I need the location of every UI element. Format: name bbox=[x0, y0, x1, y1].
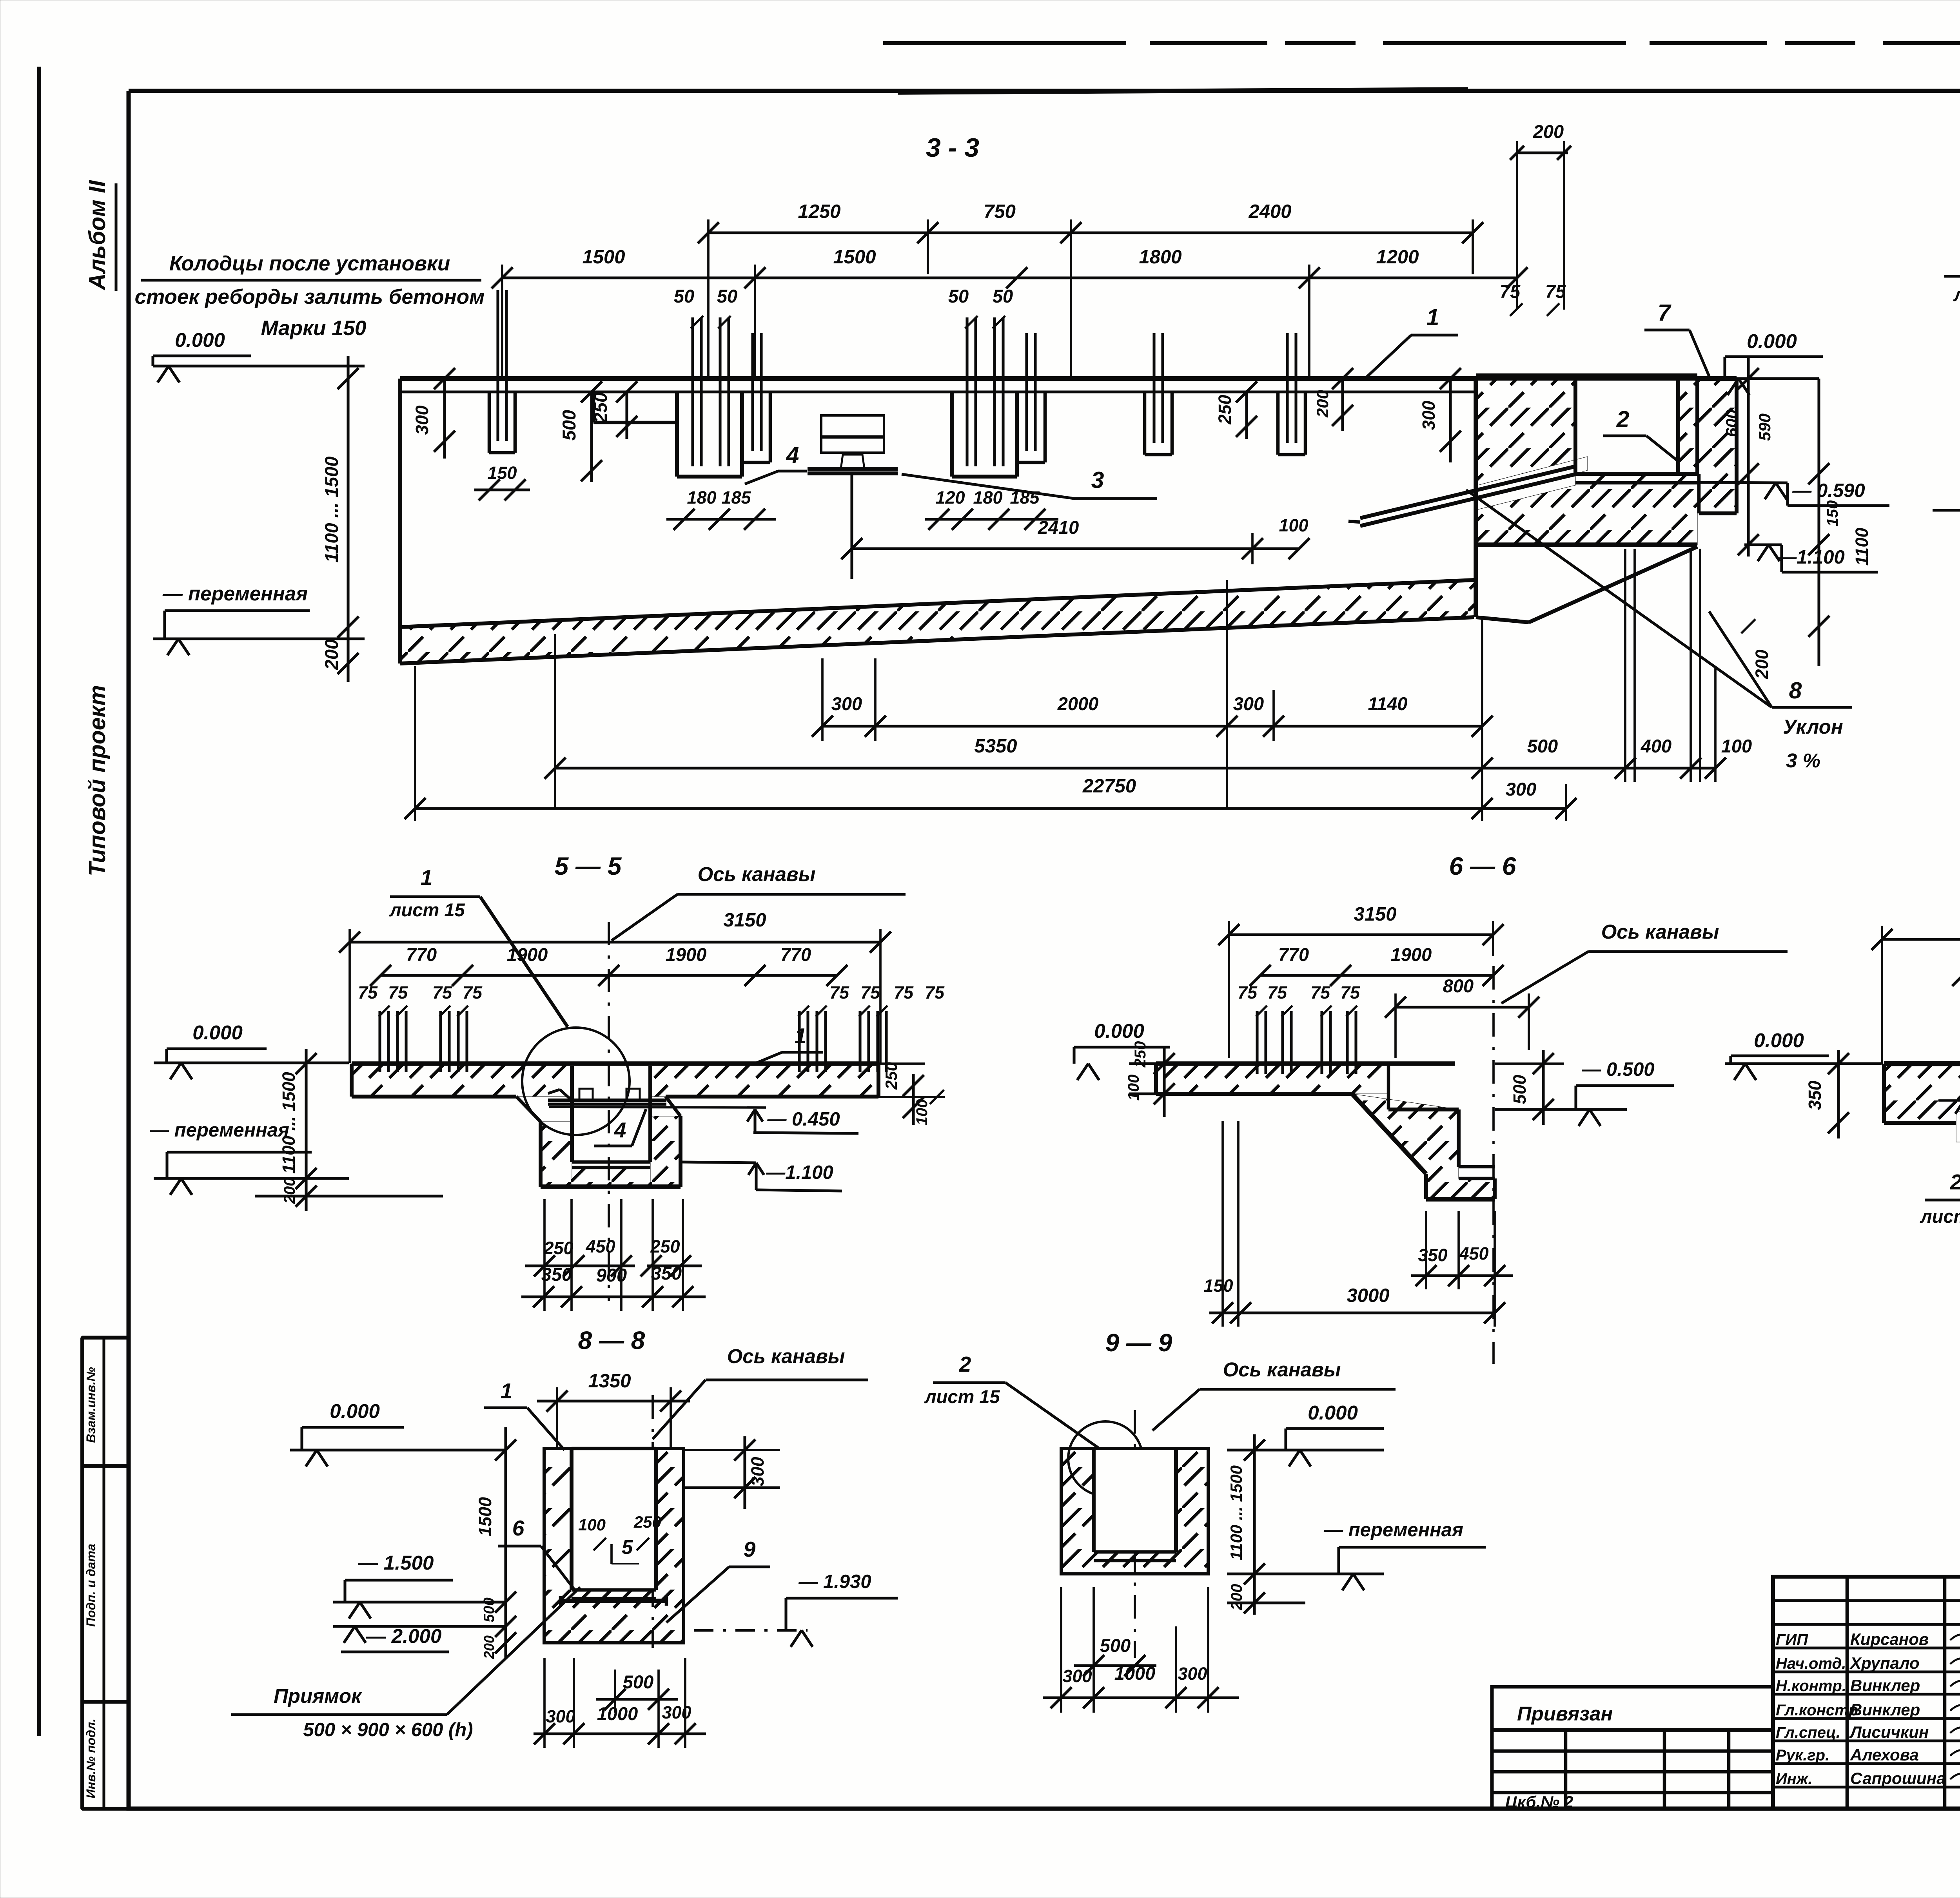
bottom dims 9-9 bbox=[1074, 1664, 1156, 1667]
svg-text:100: 100 bbox=[578, 1515, 606, 1534]
bottom dims 5-5 row1 bbox=[525, 1264, 635, 1267]
svg-text:6: 6 bbox=[512, 1516, 524, 1540]
pocket right small bbox=[742, 390, 770, 393]
detail circle 5-5 bbox=[522, 1028, 630, 1135]
main title block bbox=[1773, 1577, 1960, 1809]
svg-text:Взам.инв.№: Взам.инв.№ bbox=[84, 1367, 98, 1443]
svg-text:1: 1 bbox=[501, 1379, 513, 1403]
dim 800 6-6 bbox=[1396, 1006, 1529, 1008]
dim 3150 6-6 bbox=[1229, 933, 1493, 936]
svg-text:1100 ... 1500: 1100 ... 1500 bbox=[321, 457, 342, 563]
bottom dims 8-8 bbox=[596, 1698, 678, 1700]
svg-text:2000: 2000 bbox=[1057, 693, 1099, 714]
svg-text:200: 200 bbox=[1533, 121, 1564, 142]
svg-text:350: 350 bbox=[1805, 1080, 1825, 1110]
svg-text:75: 75 bbox=[358, 983, 378, 1002]
dim 200 250 chain right part bbox=[1341, 379, 1344, 431]
svg-text:500 × 900 × 600 (h): 500 × 900 × 600 (h) bbox=[303, 1719, 473, 1740]
svg-text:300: 300 bbox=[1506, 779, 1536, 799]
svg-text:4: 4 bbox=[614, 1118, 626, 1142]
svg-text:200: 200 bbox=[1313, 390, 1332, 418]
svg-text:3000: 3000 bbox=[1347, 1285, 1389, 1306]
sloped hatched band 3-3 bbox=[400, 580, 1474, 663]
svg-text:Лисичкин: Лисичкин bbox=[1849, 1723, 1929, 1741]
svg-text:200: 200 bbox=[281, 1178, 298, 1204]
dim row 770 1900 6-6 bbox=[1260, 974, 1493, 977]
dim 250 chain bbox=[625, 392, 628, 439]
drain channel through wall white bbox=[1478, 457, 1588, 509]
bottom dims 3-3 row2 5350 bbox=[555, 767, 1482, 769]
svg-text:120: 120 bbox=[935, 488, 965, 508]
svg-text:250: 250 bbox=[650, 1236, 680, 1256]
svg-text:— переменная: — переменная bbox=[149, 1120, 289, 1141]
svg-text:100: 100 bbox=[913, 1099, 931, 1126]
svg-text:ГИП: ГИП bbox=[1776, 1631, 1808, 1648]
left chain 8-8 bbox=[504, 1427, 507, 1658]
svg-text:100: 100 bbox=[1125, 1075, 1142, 1101]
svg-text:лист 15: лист 15 bbox=[1953, 284, 1960, 305]
svg-text:1: 1 bbox=[1426, 305, 1439, 330]
big pocket 180-185 first bbox=[675, 392, 679, 477]
svg-text:8 — 8: 8 — 8 bbox=[578, 1326, 645, 1354]
svg-text:1200: 1200 bbox=[1376, 247, 1419, 268]
svg-text:Ось канавы: Ось канавы bbox=[1223, 1358, 1341, 1381]
svg-text:2400: 2400 bbox=[1248, 201, 1291, 222]
mass under 6-6 bbox=[1352, 1094, 1495, 1199]
privyazan table bbox=[1492, 1687, 1773, 1809]
left stamp column boxes bbox=[82, 1338, 129, 1809]
svg-text:1500: 1500 bbox=[475, 1497, 495, 1536]
bottom line 9-9 bbox=[1227, 1601, 1305, 1604]
svg-text:75: 75 bbox=[860, 983, 880, 1002]
svg-text:770: 770 bbox=[406, 944, 437, 965]
svg-text:50: 50 bbox=[674, 286, 694, 306]
svg-text:800: 800 bbox=[1443, 975, 1474, 996]
svg-text:300: 300 bbox=[1178, 1664, 1207, 1684]
slab 5-5 outline bbox=[352, 1061, 878, 1066]
svg-text:185: 185 bbox=[721, 488, 751, 508]
svg-text:150: 150 bbox=[487, 463, 517, 483]
svg-text:5 — 5: 5 — 5 bbox=[555, 852, 622, 880]
svg-text:75: 75 bbox=[894, 983, 914, 1002]
svg-text:9 — 9: 9 — 9 bbox=[1105, 1329, 1172, 1357]
svg-text:0.000: 0.000 bbox=[192, 1021, 243, 1044]
svg-text:250: 250 bbox=[543, 1238, 573, 1258]
svg-text:1800: 1800 bbox=[1139, 247, 1181, 268]
svg-text:250: 250 bbox=[633, 1513, 661, 1531]
svg-text:1500: 1500 bbox=[582, 247, 625, 268]
svg-text:75: 75 bbox=[1267, 983, 1287, 1002]
svg-text:1100 ... 1500: 1100 ... 1500 bbox=[279, 1072, 299, 1173]
svg-text:1250: 1250 bbox=[798, 201, 840, 222]
svg-text:0.000: 0.000 bbox=[175, 329, 225, 351]
svg-text:2: 2 bbox=[1616, 406, 1630, 432]
grate detail in pit 5-5 bbox=[548, 1099, 666, 1102]
svg-text:0.000: 0.000 bbox=[330, 1400, 380, 1422]
svg-text:50: 50 bbox=[717, 286, 737, 306]
svg-text:450: 450 bbox=[1459, 1244, 1488, 1264]
svg-text:300: 300 bbox=[412, 405, 432, 435]
svg-text:300: 300 bbox=[1062, 1666, 1092, 1686]
svg-text:500: 500 bbox=[559, 410, 579, 441]
svg-text:75: 75 bbox=[1310, 983, 1330, 1002]
svg-text:Гл.констр: Гл.констр bbox=[1776, 1702, 1858, 1719]
svg-text:Рук.гр.: Рук.гр. bbox=[1776, 1747, 1829, 1764]
svg-text:Альбом II: Альбом II bbox=[84, 180, 110, 291]
bottom dims 5-5 row2 bbox=[521, 1295, 706, 1298]
svg-text:Подп. и дата: Подп. и дата bbox=[84, 1544, 98, 1627]
svg-text:200: 200 bbox=[321, 639, 342, 670]
svg-text:Нач.отд.: Нач.отд. bbox=[1776, 1655, 1846, 1672]
svg-text:Винклер: Винклер bbox=[1850, 1676, 1920, 1695]
svg-text:3150: 3150 bbox=[723, 910, 766, 931]
svg-text:0.000: 0.000 bbox=[1754, 1029, 1804, 1051]
svg-text:150: 150 bbox=[1824, 500, 1841, 527]
dim 1350 8-8 bbox=[537, 1399, 690, 1402]
outer left trim line bbox=[37, 67, 41, 1736]
left chain 5-5 bbox=[305, 1049, 307, 1211]
svg-text:300: 300 bbox=[1419, 401, 1439, 430]
svg-text:250: 250 bbox=[882, 1062, 900, 1090]
svg-text:1100: 1100 bbox=[1852, 528, 1872, 566]
svg-text:400: 400 bbox=[1641, 736, 1671, 756]
svg-text:75: 75 bbox=[1238, 983, 1258, 1002]
svg-text:1000: 1000 bbox=[597, 1703, 638, 1724]
svg-text:— 0.450: — 0.450 bbox=[767, 1109, 840, 1130]
svg-text:5350: 5350 bbox=[974, 736, 1017, 757]
svg-text:1: 1 bbox=[795, 1024, 807, 1048]
svg-text:185: 185 bbox=[1010, 488, 1040, 508]
centreline 6-6 bbox=[1492, 966, 1495, 1364]
chain 500 6-6 bbox=[1542, 1050, 1544, 1125]
svg-text:Гл.спец.: Гл.спец. bbox=[1776, 1724, 1840, 1741]
centreline 5-5 bbox=[608, 922, 610, 1301]
surface line 3-3 bbox=[400, 376, 1476, 381]
centreline 9-9 bbox=[1134, 1410, 1136, 1658]
svg-text:75: 75 bbox=[925, 983, 945, 1002]
pocket right of centre bbox=[1276, 392, 1280, 455]
svg-text:75: 75 bbox=[388, 983, 408, 1002]
svg-text:350: 350 bbox=[651, 1263, 682, 1283]
svg-text:180: 180 bbox=[687, 488, 716, 508]
talus under block bbox=[1476, 617, 1529, 622]
slab 7-7 bbox=[1884, 1064, 1960, 1123]
scan line top bbox=[883, 41, 1960, 45]
svg-text:Типовой проект: Типовой проект bbox=[84, 685, 110, 876]
svg-text:1000: 1000 bbox=[1114, 1663, 1156, 1684]
right chain 5-5 bbox=[912, 1074, 915, 1125]
signature squiggles bbox=[1950, 1632, 1960, 1643]
svg-text:500: 500 bbox=[1100, 1635, 1131, 1656]
svg-text:1350: 1350 bbox=[588, 1370, 631, 1392]
svg-text:Цкб.№ 2: Цкб.№ 2 bbox=[1505, 1793, 1573, 1811]
svg-text:1900: 1900 bbox=[507, 944, 548, 965]
svg-text:Ось канавы: Ось канавы bbox=[698, 863, 816, 885]
svg-text:4: 4 bbox=[786, 442, 799, 468]
svg-text:75: 75 bbox=[829, 983, 849, 1002]
ledge line -0.450 5-5 bbox=[549, 1107, 766, 1108]
chain 500 590 bbox=[1747, 357, 1749, 557]
svg-text:2: 2 bbox=[959, 1352, 971, 1376]
pocket mid 1800 bbox=[1143, 392, 1147, 455]
svg-text:— 0.500: — 0.500 bbox=[1581, 1059, 1654, 1080]
chain 350 7-7 bbox=[1837, 1050, 1840, 1138]
surface over block thick bbox=[1476, 373, 1697, 381]
bottom dims 3-3 row3 22750 bbox=[415, 807, 1482, 810]
right foundation block 3-3 bbox=[1476, 379, 1697, 545]
bottom dims 3-3 row1 bbox=[822, 725, 1482, 727]
svg-text:200: 200 bbox=[1228, 1584, 1245, 1611]
svg-text:100: 100 bbox=[1279, 515, 1308, 535]
dim row B 1500 1500 1800 1200 bbox=[502, 276, 1517, 279]
block 5-5 hatched bbox=[541, 1122, 572, 1187]
block 8-8 bbox=[544, 1448, 684, 1643]
well of block bbox=[1573, 379, 1577, 474]
svg-text:770: 770 bbox=[780, 944, 811, 965]
svg-text:200: 200 bbox=[481, 1635, 497, 1659]
dim row A 1250 750 2400 bbox=[708, 231, 1473, 234]
stand detail 4 bbox=[821, 415, 884, 453]
svg-text:Колодцы после установки: Колодцы после установки bbox=[169, 252, 450, 275]
bottom dims right 500 400 100 bbox=[1482, 767, 1715, 769]
svg-text:лист 15: лист 15 bbox=[924, 1386, 1000, 1407]
svg-text:1140: 1140 bbox=[1368, 693, 1407, 714]
svg-text:75: 75 bbox=[463, 983, 483, 1002]
right extension of block bbox=[1699, 379, 1737, 513]
svg-text:75: 75 bbox=[1545, 281, 1566, 302]
svg-text:5: 5 bbox=[622, 1536, 633, 1558]
svg-text:Алехова: Алехова bbox=[1850, 1746, 1919, 1764]
surface second line bbox=[400, 390, 1476, 393]
svg-text:2: 2 bbox=[1950, 1170, 1960, 1194]
trench 6-6 bbox=[1387, 1064, 1390, 1109]
slab 6-6 bbox=[1156, 1064, 1388, 1094]
svg-text:100: 100 bbox=[1721, 736, 1752, 756]
frame top emphasis segment bbox=[898, 89, 1468, 92]
svg-text:75: 75 bbox=[1500, 281, 1521, 302]
svg-text:300: 300 bbox=[831, 693, 862, 714]
svg-text:1500: 1500 bbox=[833, 247, 876, 268]
ladder bar 8-8 bbox=[561, 1599, 666, 1603]
svg-text:Инж.: Инж. bbox=[1776, 1770, 1813, 1787]
block 9-9 bbox=[1061, 1448, 1208, 1574]
svg-text:500: 500 bbox=[623, 1671, 653, 1692]
svg-text:0.000: 0.000 bbox=[1747, 330, 1797, 352]
svg-text:Марки 150: Марки 150 bbox=[261, 317, 366, 340]
svg-text:Приямок: Приямок bbox=[274, 1685, 362, 1707]
svg-text:3 %: 3 % bbox=[1786, 749, 1820, 772]
dim 3150 5-5 bbox=[350, 941, 880, 943]
dim 300 chain at block bbox=[1449, 379, 1452, 462]
svg-text:50: 50 bbox=[948, 286, 969, 306]
svg-text:— 1.930: — 1.930 bbox=[798, 1571, 871, 1592]
svg-text:—1.100: —1.100 bbox=[1777, 547, 1845, 568]
second big pocket pair bbox=[950, 392, 954, 477]
svg-text:1: 1 bbox=[421, 865, 433, 890]
rot dims right 150 1100 200 bbox=[1817, 379, 1820, 666]
svg-text:300: 300 bbox=[1233, 693, 1264, 714]
svg-text:0.000: 0.000 bbox=[1308, 1401, 1358, 1424]
centreline 8-8 bbox=[652, 1395, 654, 1648]
dim 2410 100 bbox=[852, 547, 1299, 550]
svg-text:1100 ... 1500: 1100 ... 1500 bbox=[1227, 1465, 1245, 1560]
svg-text:50: 50 bbox=[993, 286, 1013, 306]
block 5-5 outline bbox=[539, 1122, 543, 1187]
svg-text:300: 300 bbox=[748, 1457, 768, 1486]
svg-text:590: 590 bbox=[1755, 413, 1774, 441]
pit flares 5-5 bbox=[516, 1097, 541, 1122]
drain strip 8 bbox=[1360, 466, 1575, 518]
svg-text:— переменная: — переменная bbox=[1323, 1519, 1463, 1541]
svg-text:75: 75 bbox=[1340, 983, 1360, 1002]
dim 250 chain mid bbox=[1245, 392, 1248, 439]
svg-text:— 0.590: — 0.590 bbox=[1792, 480, 1865, 501]
svg-text:9: 9 bbox=[744, 1537, 756, 1561]
svg-text:1900: 1900 bbox=[666, 944, 707, 965]
svg-text:Привязан: Привязан bbox=[1517, 1702, 1613, 1725]
svg-text:200: 200 bbox=[1752, 649, 1772, 679]
dim 300 under block bbox=[1482, 807, 1566, 810]
left columns of title block bbox=[1773, 1599, 1960, 1602]
notch floor bbox=[592, 392, 595, 422]
svg-text:3: 3 bbox=[1091, 467, 1104, 493]
svg-text:2410: 2410 bbox=[1038, 517, 1079, 538]
svg-text:Инв.№ подл.: Инв.№ подл. bbox=[84, 1719, 98, 1798]
svg-text:3150: 3150 bbox=[1354, 904, 1396, 925]
svg-text:Кирсанов: Кирсанов bbox=[1850, 1630, 1929, 1648]
svg-text:500: 500 bbox=[1527, 736, 1558, 756]
left dim chain 3-3 bbox=[347, 356, 349, 682]
svg-text:600: 600 bbox=[1722, 410, 1741, 437]
svg-text:лист 15: лист 15 bbox=[1920, 1206, 1960, 1227]
svg-text:350: 350 bbox=[1418, 1245, 1447, 1265]
svg-text:180: 180 bbox=[973, 488, 1002, 508]
svg-text:250: 250 bbox=[1132, 1041, 1149, 1068]
svg-text:8: 8 bbox=[1789, 678, 1802, 703]
svg-text:770: 770 bbox=[1278, 944, 1309, 965]
level -0.450 7-7 bbox=[1956, 1111, 1960, 1142]
svg-text:6 — 6: 6 — 6 bbox=[1449, 852, 1516, 880]
svg-text:3 - 3: 3 - 3 bbox=[926, 133, 979, 163]
left chain 6-6 bbox=[1163, 1047, 1165, 1117]
left wall 3-3 bbox=[398, 379, 402, 627]
svg-text:7: 7 bbox=[1658, 300, 1672, 326]
dim 500 chain bbox=[590, 392, 593, 482]
svg-text:300: 300 bbox=[662, 1702, 691, 1722]
svg-text:350: 350 bbox=[541, 1264, 572, 1285]
svg-text:—1.100: —1.100 bbox=[766, 1162, 833, 1183]
svg-text:500: 500 bbox=[481, 1597, 497, 1622]
svg-text:Уклон: Уклон bbox=[1783, 716, 1843, 738]
svg-text:Н.контр.: Н.контр. bbox=[1776, 1677, 1846, 1695]
svg-text:Винклер: Винклер bbox=[1850, 1700, 1920, 1719]
slab 5-5 hatched bbox=[352, 1064, 572, 1097]
dim row 770 1900 1900 770 bbox=[381, 974, 837, 977]
svg-text:Ось канавы: Ось канавы bbox=[1601, 921, 1719, 943]
svg-text:22750: 22750 bbox=[1082, 776, 1136, 797]
svg-text:— переменная: — переменная bbox=[162, 582, 308, 605]
dims 3150 3150 7-7 bbox=[1882, 938, 1960, 941]
svg-text:— 1.500: — 1.500 bbox=[358, 1552, 434, 1574]
pocket 150 near left bbox=[488, 392, 491, 453]
svg-text:Сапрошина: Сапрошина bbox=[1850, 1769, 1945, 1787]
svg-text:250: 250 bbox=[1215, 395, 1235, 424]
svg-text:750: 750 bbox=[984, 201, 1016, 222]
svg-text:500: 500 bbox=[1510, 1075, 1530, 1104]
svg-text:75: 75 bbox=[432, 983, 452, 1002]
svg-text:150: 150 bbox=[1203, 1276, 1233, 1296]
svg-text:Ось канавы: Ось канавы bbox=[727, 1345, 845, 1367]
right chain 9-9 bbox=[1253, 1434, 1256, 1615]
svg-text:300: 300 bbox=[546, 1706, 575, 1726]
dim 300 chain left bbox=[443, 379, 446, 459]
svg-text:450: 450 bbox=[585, 1236, 615, 1256]
detail circle 9-9 bbox=[1068, 1421, 1143, 1496]
svg-text:0.000: 0.000 bbox=[1094, 1020, 1144, 1042]
right chain 300 8-8 bbox=[743, 1436, 746, 1509]
svg-text:лист 15: лист 15 bbox=[389, 899, 465, 920]
svg-text:1900: 1900 bbox=[1391, 944, 1432, 965]
svg-text:— 2.000: — 2.000 bbox=[366, 1625, 442, 1647]
svg-text:стоек реборды залить бетоно: стоек реборды залить бетоном bbox=[135, 285, 485, 308]
svg-text:Хрупало: Хрупало bbox=[1849, 1654, 1920, 1672]
